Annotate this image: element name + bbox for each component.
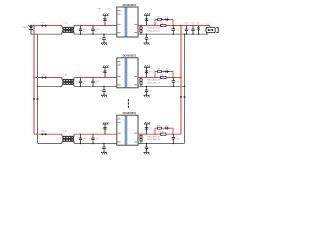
capacitor C405 on loop [164,125,169,129]
svg-text:C302: C302 [95,81,99,83]
wire grey rail ch3 mid [74,85,117,87]
svg-text:F301: F301 [41,75,45,77]
wire red output rail ch3 [138,77,181,79]
capacitor C303 Y-cap [101,67,107,78]
svg-text:F201: F201 [41,23,45,25]
resistor R404 in rail [160,131,166,135]
capacitor C401 [79,133,87,144]
svg-text:R402-10K0-1%: R402-10K0-1% [147,139,160,141]
capacitor C305 on loop [164,69,169,73]
capacitor C407 Y-cap [145,124,152,135]
diode D201 output [197,23,201,35]
wire input return start [31,33,38,35]
svg-text:F401: F401 [41,131,45,133]
svg-text:J201: J201 [206,24,209,26]
DC-DC converter module U201 [117,4,138,37]
svg-text:C44: C44 [100,148,103,150]
svg-text:R202-10K0-1%: R202-10K0-1% [147,30,160,32]
svg-text:DCH010512: DCH010512 [123,112,137,115]
resistor divider R201 R202 [140,25,161,35]
svg-text:C24: C24 [100,38,103,40]
chassis ground above ch3 [103,65,109,67]
wire grey from connector [206,33,208,35]
wire grey rail ch4 mid [74,143,117,145]
svg-text:C43: C43 [101,128,104,130]
svg-text:C205: C205 [165,17,169,19]
grey return bus (left) [37,34,39,143]
chassis ground above ch2 [103,13,109,15]
svg-text:C405: C405 [165,125,169,127]
red output bus (right) [180,26,182,135]
svg-text:DCH010512: DCH010512 [123,55,137,58]
svg-text:C34: C34 [100,91,103,93]
svg-text:L201: L201 [64,23,68,25]
diode D1 input [29,25,33,35]
svg-text:C38: C38 [149,91,152,93]
wire red input rail ch2 [34,25,62,27]
earth ground below right ch4 [144,152,150,154]
wire grey return rail ch3 left [38,85,63,87]
svg-text:C47: C47 [149,128,152,130]
svg-text:1u: 1u [95,83,97,85]
wire red rail ch4 mid [74,133,117,135]
capacitor C403 Y-cap [101,124,107,135]
svg-text:C209: C209 [185,23,189,25]
svg-text:C406: C406 [176,138,180,140]
capacitor C307 Y-cap [145,67,152,78]
svg-text:R403: R403 [157,125,161,127]
svg-text:R203: R203 [157,17,161,19]
capacitor C205 on loop [164,17,169,21]
capacitor C306 [172,78,180,88]
capacitor C402 [91,133,99,144]
capacitor C304 Y-cap [100,86,106,96]
svg-text:1u: 1u [95,140,97,142]
svg-text:1u: 1u [83,83,85,85]
resistor divider R401 R402 [140,133,161,144]
continuation ellipsis [128,99,129,108]
chassis ground above right ch2 [144,13,150,15]
connector J201 [206,24,218,33]
capacitor C201 [79,25,87,35]
svg-text:L301: L301 [64,75,68,77]
svg-text:2k49: 2k49 [160,75,163,77]
capacitor C408 Y-cap [145,143,152,153]
DC-DC converter module U301 [117,55,138,88]
chassis ground above right ch4 [144,122,150,124]
wire grey rail ch4 right [138,143,185,145]
chassis ground above right ch3 [144,65,150,67]
capacitor C406 [172,134,180,144]
capacitor C210 [191,23,195,35]
wire red output rail ch2 [138,25,210,27]
capacitor C302 [91,77,99,87]
svg-text:C301: C301 [83,81,87,83]
wire grey rail ch2 mid [74,33,117,35]
svg-text:C402: C402 [95,138,99,140]
svg-text:DCH010512: DCH010512 [123,4,137,7]
capacitor C208 Y-cap [145,33,152,43]
svg-text:2k49: 2k49 [160,23,163,25]
svg-text:R303: R303 [157,69,161,71]
grey output bus (right) [184,34,186,143]
capacitor C204 Y-cap [100,33,106,43]
fuse F201 [41,23,47,27]
capacitor C404 Y-cap [100,143,106,153]
svg-text:1u: 1u [83,140,85,142]
capacitor C207 Y-cap [145,15,152,26]
resistor R204 in rail [160,23,166,27]
earth ground below ch4 [101,152,107,154]
wire red input stub [28,25,34,27]
common-mode choke L201 [62,23,74,35]
svg-text:R301-4K22-1%: R301-4K22-1% [147,80,160,82]
chassis ground above ch4 [103,122,109,124]
wire grey rail ch3 right [138,85,185,87]
junction dots right bus [180,25,181,26]
capacitor C206 [172,26,180,35]
resistor R303 on loop [157,69,162,73]
svg-text:C37: C37 [149,72,152,74]
wire red input rail ch4 [34,133,62,135]
common-mode choke L301 [62,75,74,87]
earth ground below right ch3 [144,95,150,97]
resistor R203 on loop [157,17,162,21]
svg-text:C206: C206 [176,30,180,32]
wire grey return rail ch4 left [38,143,63,145]
svg-text:R302-10K0-1%: R302-10K0-1% [147,82,160,84]
DC-DC converter module U401 [117,112,138,145]
capacitor C209 [185,23,189,35]
wire grey return rail ch2 left [38,33,63,35]
earth ground below ch2 [101,43,107,45]
fuse F301 [41,75,47,79]
capacitor C308 Y-cap [145,86,152,96]
svg-text:C23: C23 [101,20,104,22]
svg-text:C305: C305 [165,69,169,71]
svg-text:C201: C201 [83,29,87,31]
red supply bus (left) [33,26,35,135]
svg-text:D21: D21 [197,23,200,25]
svg-text:C27: C27 [149,20,152,22]
resistor divider R301 R302 [140,77,161,87]
capacitor C202 [91,25,99,35]
wire red rail ch2 mid [74,25,117,27]
feedback loop net ch4 [155,128,173,134]
svg-text:C48: C48 [149,148,152,150]
svg-text:L401: L401 [64,131,68,133]
svg-text:C28: C28 [149,38,152,40]
feedback loop net ch3 [155,72,173,78]
svg-text:1u: 1u [95,31,97,33]
wire grey rail ch2 right [138,33,208,35]
earth ground below ch3 [101,95,107,97]
resistor R304 in rail [160,75,166,79]
svg-text:1u: 1u [83,31,85,33]
feedback loop net ch2 [155,20,173,26]
junction dots left bus [33,25,34,26]
fuse F401 [41,131,47,135]
wire red down to connector [209,26,211,28]
svg-text:2k49: 2k49 [160,131,163,133]
svg-text:C210: C210 [191,23,195,25]
capacitor C203 Y-cap [101,15,107,26]
svg-text:C202: C202 [95,29,99,31]
svg-text:R201-4K22-1%: R201-4K22-1% [147,28,160,30]
earth ground below right ch2 [144,43,150,45]
wire red input rail ch3 [34,77,62,79]
common-mode choke L401 [62,131,74,143]
svg-text:24VIN: 24VIN [23,27,28,29]
resistor R403 on loop [157,125,162,129]
wire red output rail ch4 [138,133,181,135]
capacitor C301 [79,77,87,87]
svg-text:R401-4K22-1%: R401-4K22-1% [147,136,160,138]
svg-text:C33: C33 [101,72,104,74]
wire red rail ch3 mid [74,77,117,79]
svg-text:C306: C306 [176,82,180,84]
svg-text:C401: C401 [83,138,87,140]
